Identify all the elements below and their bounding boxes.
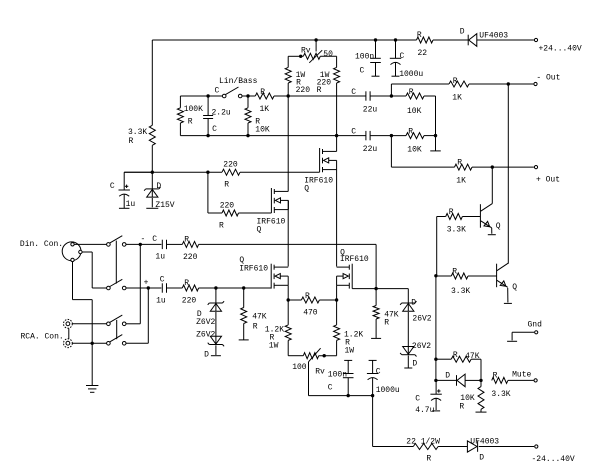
wire bass box left side	[179, 96, 181, 136]
connector RCA lower	[64, 339, 73, 348]
transistor Q IRF610 M2	[257, 188, 289, 235]
svg-text:26V2: 26V2	[412, 315, 431, 324]
svg-text:C: C	[160, 276, 165, 285]
svg-text:C: C	[152, 235, 157, 244]
svg-text:100n: 100n	[355, 53, 374, 62]
wire RCA upper to sw3	[72, 323, 106, 325]
switch input + select (DIN)	[107, 279, 126, 290]
wire Q1 emitter stub	[488, 228, 496, 235]
label Din connector	[20, 240, 63, 249]
zener D 26V2 upper	[400, 289, 432, 324]
wire gate splitter drop	[207, 172, 209, 213]
svg-text:47K: 47K	[465, 352, 480, 361]
svg-text:470: 470	[303, 309, 318, 318]
resistor R 47K (- gate)	[371, 289, 399, 339]
svg-text:10K: 10K	[407, 107, 422, 116]
wire top +supply rail	[152, 39, 534, 41]
svg-text:R: R	[493, 372, 498, 381]
svg-text:220: 220	[223, 161, 238, 170]
resistor R 220 (- input)	[182, 236, 198, 263]
node Q2 base tap	[434, 274, 437, 277]
node + select bus	[147, 286, 150, 289]
svg-text:R: R	[453, 77, 458, 86]
svg-text:-: -	[141, 235, 146, 244]
svg-text:C: C	[360, 67, 365, 76]
svg-text:Lin/Bass: Lin/Bass	[219, 77, 258, 86]
terminal + Out	[534, 166, 560, 185]
resistor R 10K (upper bleed)	[406, 88, 424, 116]
wire + select bus drop	[147, 288, 149, 343]
wire pot left lead	[288, 55, 303, 57]
capacitor C 1u (+ input)	[144, 276, 167, 306]
svg-text:2.2u: 2.2u	[212, 109, 231, 118]
svg-text:R: R	[317, 86, 322, 95]
svg-text:1u: 1u	[126, 200, 136, 209]
wire -out corner	[390, 84, 392, 96]
capacitor C 4.7u (mute)	[415, 389, 442, 415]
wire pot100 wiper drop	[309, 362, 373, 396]
transistor Q NPN lower	[497, 263, 518, 292]
wire sw3 out corner	[126, 323, 140, 325]
svg-text:R: R	[129, 137, 134, 146]
svg-text:D: D	[460, 28, 465, 37]
wire RCA shells link	[68, 328, 70, 338]
resistor R 47K (mute)	[436, 351, 481, 362]
wire Q2 emitter stub	[504, 288, 512, 304]
node mute 47K tap	[434, 358, 437, 361]
svg-text:R: R	[384, 319, 389, 328]
svg-text:D: D	[479, 454, 484, 463]
wire pot100 left lead	[288, 355, 303, 357]
resistor R 1.2K 1W (left)	[265, 300, 291, 356]
svg-text:R: R	[408, 128, 413, 137]
wire DIN top pin to sw1	[74, 243, 106, 245]
svg-text:1u: 1u	[156, 297, 166, 306]
capacitor C 1u (- input)	[141, 235, 167, 262]
wire sw4 out corner	[126, 342, 148, 344]
terminal - Out	[534, 74, 561, 86]
resistor R 3.3K (Q2 base)	[436, 268, 497, 297]
svg-text:100n: 100n	[328, 371, 347, 380]
resistor R 220 1W (left)	[285, 56, 310, 95]
svg-text:RCA. Con.: RCA. Con.	[21, 333, 64, 342]
svg-text:C: C	[415, 395, 420, 404]
svg-text:Q: Q	[512, 283, 517, 292]
svg-text:Din. Con.: Din. Con.	[20, 240, 63, 249]
svg-text:220: 220	[183, 253, 198, 262]
switch RCA + select	[107, 335, 126, 346]
node M3 source	[287, 298, 290, 301]
svg-text:3.3K: 3.3K	[491, 390, 510, 399]
switch input - select (DIN)	[107, 236, 126, 247]
node pot wiper tie	[299, 55, 302, 58]
zener D Z6V2 lower	[196, 331, 224, 360]
node 2.2u top	[206, 94, 209, 97]
svg-text:1W: 1W	[345, 347, 355, 356]
svg-text:C: C	[328, 384, 333, 393]
svg-text:R: R	[184, 279, 189, 288]
node 100n cap tap	[374, 38, 377, 41]
svg-text:UF4003: UF4003	[470, 438, 499, 447]
wire M1 drain up	[336, 136, 338, 152]
wire DIN bottom pin to ground bus	[73, 262, 93, 386]
svg-text:10K: 10K	[460, 394, 475, 403]
svg-text:Gnd: Gnd	[528, 321, 543, 330]
label RCA connector	[21, 333, 64, 342]
node M4 source	[335, 298, 338, 301]
resistor R 1K (-out)	[449, 77, 469, 103]
svg-text:R: R	[426, 455, 431, 464]
wire + input to M3 gate	[199, 287, 272, 289]
node 100n source tap	[347, 394, 350, 397]
terminal Gnd	[507, 331, 538, 342]
capacitor C 100n (source)	[328, 360, 354, 395]
svg-text:D: D	[411, 299, 416, 308]
terminal -24...40V	[532, 445, 575, 464]
ground input common	[86, 386, 98, 393]
svg-text:R: R	[188, 118, 193, 127]
potentiometer Rv 50	[301, 40, 333, 63]
wire pot100 right lead	[319, 355, 337, 357]
node M2 drain rail	[287, 94, 290, 97]
resistor R 1K (+out)	[455, 159, 473, 186]
svg-text:D: D	[412, 360, 417, 369]
node M4 gate 47K tap	[374, 287, 377, 290]
switch Lin/Bass	[215, 77, 258, 98]
wire M3 source down	[287, 285, 289, 300]
svg-text:R: R	[417, 31, 422, 40]
svg-text:R: R	[459, 403, 464, 412]
wire RCA lower to sw4	[72, 342, 106, 344]
wire + input mid	[167, 287, 183, 289]
wire pot right lead	[320, 55, 336, 57]
svg-text:R: R	[224, 181, 229, 190]
svg-text:1K: 1K	[456, 177, 466, 186]
capacitor C 2.2u (bass box)	[203, 96, 231, 136]
svg-text:4.7u: 4.7u	[415, 406, 434, 415]
svg-text:Z6V2: Z6V2	[196, 318, 215, 327]
wire bass box bottom rail	[180, 135, 435, 137]
svg-text:Mute: Mute	[512, 371, 531, 380]
node gate splitter	[206, 171, 209, 174]
node 10K top (bass box)	[246, 94, 249, 97]
svg-text:Z15V: Z15V	[155, 201, 174, 210]
node zener tap (+)	[214, 286, 217, 289]
wire bass box top rail	[180, 95, 435, 97]
resistor R 10K (lower bleed)	[406, 128, 424, 155]
svg-text:Q: Q	[496, 222, 501, 231]
wire M4 gate rail	[352, 288, 408, 290]
svg-text:47K: 47K	[252, 313, 267, 322]
resistor R 220 (+ input)	[182, 279, 199, 305]
wire left 220 lead down	[287, 83, 289, 191]
capacitor C 1u (bias)	[110, 172, 136, 209]
svg-text:1K: 1K	[452, 94, 462, 103]
resistor R 22 (top rail)	[417, 31, 434, 58]
node -out / Q2 collector	[507, 82, 510, 85]
svg-text:+ Out: + Out	[536, 176, 560, 185]
resistor R 10K (bass box)	[245, 96, 270, 136]
node bleed common	[434, 134, 437, 137]
resistor R 220 (M2 gate)	[219, 202, 239, 231]
zener D Z6V2 upper	[196, 288, 224, 327]
node pot100 wiper tie	[323, 354, 326, 357]
node mute junction	[479, 379, 482, 382]
svg-text:22 1/2W: 22 1/2W	[406, 438, 440, 447]
svg-text:C: C	[110, 182, 115, 191]
wire Q2 collector riser	[507, 84, 509, 264]
zener D 26V2 lower	[400, 342, 431, 369]
svg-text:3.3K: 3.3K	[447, 226, 466, 235]
svg-text:R: R	[219, 222, 224, 231]
svg-text:1K: 1K	[260, 105, 270, 114]
diode D UF4003 (top rail)	[460, 28, 509, 47]
ground bleed stub	[430, 136, 441, 151]
capacitor C 22u (lower)	[351, 128, 377, 155]
svg-text:220: 220	[182, 297, 197, 306]
wire DIN right pin to sw2	[82, 252, 107, 288]
svg-text:IRF610: IRF610	[239, 265, 268, 274]
svg-text:Rv: Rv	[315, 368, 325, 377]
svg-text:Q: Q	[304, 185, 309, 194]
zener D Z15V (bias)	[144, 172, 175, 210]
node 47K tap (+)	[242, 286, 245, 289]
wire sw1 out	[126, 243, 161, 245]
svg-text:1.2K: 1.2K	[265, 326, 284, 335]
resistor R 10K (mute)	[459, 380, 486, 412]
resistor R 1.2K 1W (right)	[334, 300, 364, 356]
svg-text:220: 220	[220, 202, 235, 211]
wire bias left corner lead	[124, 171, 152, 173]
svg-text:R: R	[452, 268, 457, 277]
svg-text:26V2: 26V2	[412, 342, 431, 351]
resistor R 220 1W (right)	[317, 56, 340, 95]
wire sw2 out	[126, 287, 161, 289]
wire - input mid	[167, 243, 183, 245]
svg-text:C: C	[351, 88, 356, 97]
wire -out rail	[391, 83, 533, 85]
wire right 220 lead down	[336, 83, 338, 136]
wire +out rail	[391, 166, 534, 168]
svg-text:R: R	[457, 159, 462, 168]
terminal +24...40V	[534, 38, 582, 53]
resistor R 220 (M1 gate)	[222, 161, 240, 190]
transistor Q IRF610 M4	[337, 249, 369, 289]
svg-text:+: +	[144, 279, 149, 288]
svg-text:R: R	[253, 323, 258, 332]
node - select bus	[139, 243, 142, 246]
diode D (mute)	[436, 372, 481, 387]
wire M1 source down	[336, 170, 338, 267]
wire mute bus lower	[435, 276, 437, 394]
wire - input to M4 gate	[199, 244, 377, 288]
resistor R 470	[288, 292, 336, 318]
resistor R 100K (bass box)	[177, 105, 203, 127]
wire M2 gate rail	[208, 212, 272, 214]
svg-text:22: 22	[418, 49, 428, 58]
svg-text:R: R	[260, 88, 265, 97]
svg-text:100K: 100K	[184, 105, 203, 114]
wire upper bleed corner	[435, 96, 437, 135]
connector DIN	[62, 242, 82, 262]
wire bottom -supply rail	[373, 446, 534, 448]
resistor R 3.3K (mute)	[491, 372, 533, 400]
svg-text:50: 50	[323, 50, 333, 59]
capacitor C 22u (upper)	[351, 88, 377, 115]
svg-text:22u: 22u	[363, 106, 378, 115]
node 10K bottom (bass box)	[246, 134, 249, 137]
wire mute bus upper	[436, 217, 437, 276]
node +out / Q1 collector	[491, 165, 494, 168]
diode D UF4003 (bottom)	[467, 438, 499, 463]
svg-text:R: R	[453, 351, 458, 360]
svg-text:C: C	[376, 368, 381, 377]
svg-text:-24...40V: -24...40V	[532, 455, 575, 464]
capacitor C 100n (top)	[355, 40, 381, 76]
switch RCA - select	[107, 315, 126, 326]
connector RCA upper	[64, 319, 73, 328]
node lower out junction	[390, 134, 393, 137]
gang link RCA switches	[116, 320, 118, 339]
node RCA ground tie	[91, 342, 94, 345]
svg-text:R: R	[305, 292, 310, 301]
wire +out corner	[390, 136, 392, 168]
resistor R 47K (+ gate)	[239, 288, 267, 340]
wire M1 gate rail	[124, 171, 319, 173]
wire M2 source down	[287, 200, 289, 266]
transistor Q IRF610 M3	[239, 256, 288, 289]
wire between Z6V2	[215, 312, 217, 336]
svg-text:C: C	[351, 128, 356, 137]
svg-text:1000u: 1000u	[399, 70, 423, 79]
svg-text:C: C	[400, 52, 405, 61]
svg-text:- Out: - Out	[536, 74, 560, 83]
svg-text:C: C	[215, 87, 220, 96]
node pot wiper on +rail	[314, 38, 317, 41]
svg-text:+24...40V: +24...40V	[539, 45, 582, 54]
node mute diode tap	[434, 379, 437, 382]
wire between 26V2	[407, 312, 409, 347]
svg-text:D: D	[204, 350, 209, 359]
node 1000u cap tap	[394, 38, 397, 41]
node upper out junction	[390, 94, 393, 97]
wire negative feed riser	[372, 396, 374, 447]
node 2.2u bottom	[206, 134, 209, 137]
svg-text:C: C	[212, 125, 217, 134]
svg-text:220: 220	[296, 86, 311, 95]
terminal Mute	[512, 371, 537, 383]
svg-text:IRF610: IRF610	[340, 255, 369, 264]
svg-text:3.3K: 3.3K	[128, 128, 147, 137]
wire Q1 collector riser	[491, 167, 493, 204]
svg-text:10K: 10K	[407, 146, 422, 155]
svg-text:100: 100	[292, 363, 307, 372]
wire left feed drop	[151, 40, 153, 172]
resistor R 1K (bass box out)	[255, 88, 274, 114]
node 1000u source tap	[371, 394, 374, 397]
resistor R 3.3K (Q1 base)	[437, 208, 481, 235]
svg-text:1u: 1u	[155, 253, 165, 262]
resistor R 22 1/2W	[406, 438, 440, 464]
svg-text:1000u: 1000u	[376, 386, 400, 395]
svg-text:D: D	[445, 372, 450, 381]
svg-text:UF4003: UF4003	[479, 32, 508, 41]
svg-text:R: R	[449, 208, 454, 217]
node M1 drain rail	[335, 134, 338, 137]
wire M4 source down	[336, 285, 338, 300]
svg-text:D: D	[156, 182, 161, 191]
transistor Q NPN upper	[480, 204, 500, 231]
svg-text:3.3K: 3.3K	[451, 287, 470, 296]
label Gnd	[528, 321, 543, 330]
svg-text:R: R	[184, 236, 189, 245]
transistor Q IRF610 M1	[304, 148, 336, 194]
gang link - switches	[115, 241, 117, 284]
node bias left corner	[151, 171, 154, 174]
wire - select bus drop	[139, 244, 141, 323]
potentiometer Rv 100	[292, 348, 325, 376]
wire mute 47K corner	[480, 359, 482, 380]
svg-text:10K: 10K	[255, 126, 270, 135]
svg-text:Rv: Rv	[301, 47, 311, 56]
svg-text:1W: 1W	[269, 342, 279, 351]
resistor R 3.3K (left feed)	[128, 125, 155, 146]
capacitor C 1000u (top)	[390, 40, 424, 79]
svg-text:Z6V2: Z6V2	[196, 331, 215, 340]
svg-text:R: R	[409, 88, 414, 97]
svg-text:22u: 22u	[363, 145, 378, 154]
capacitor C 1000u (source)	[367, 360, 400, 395]
svg-text:Q: Q	[257, 226, 262, 235]
